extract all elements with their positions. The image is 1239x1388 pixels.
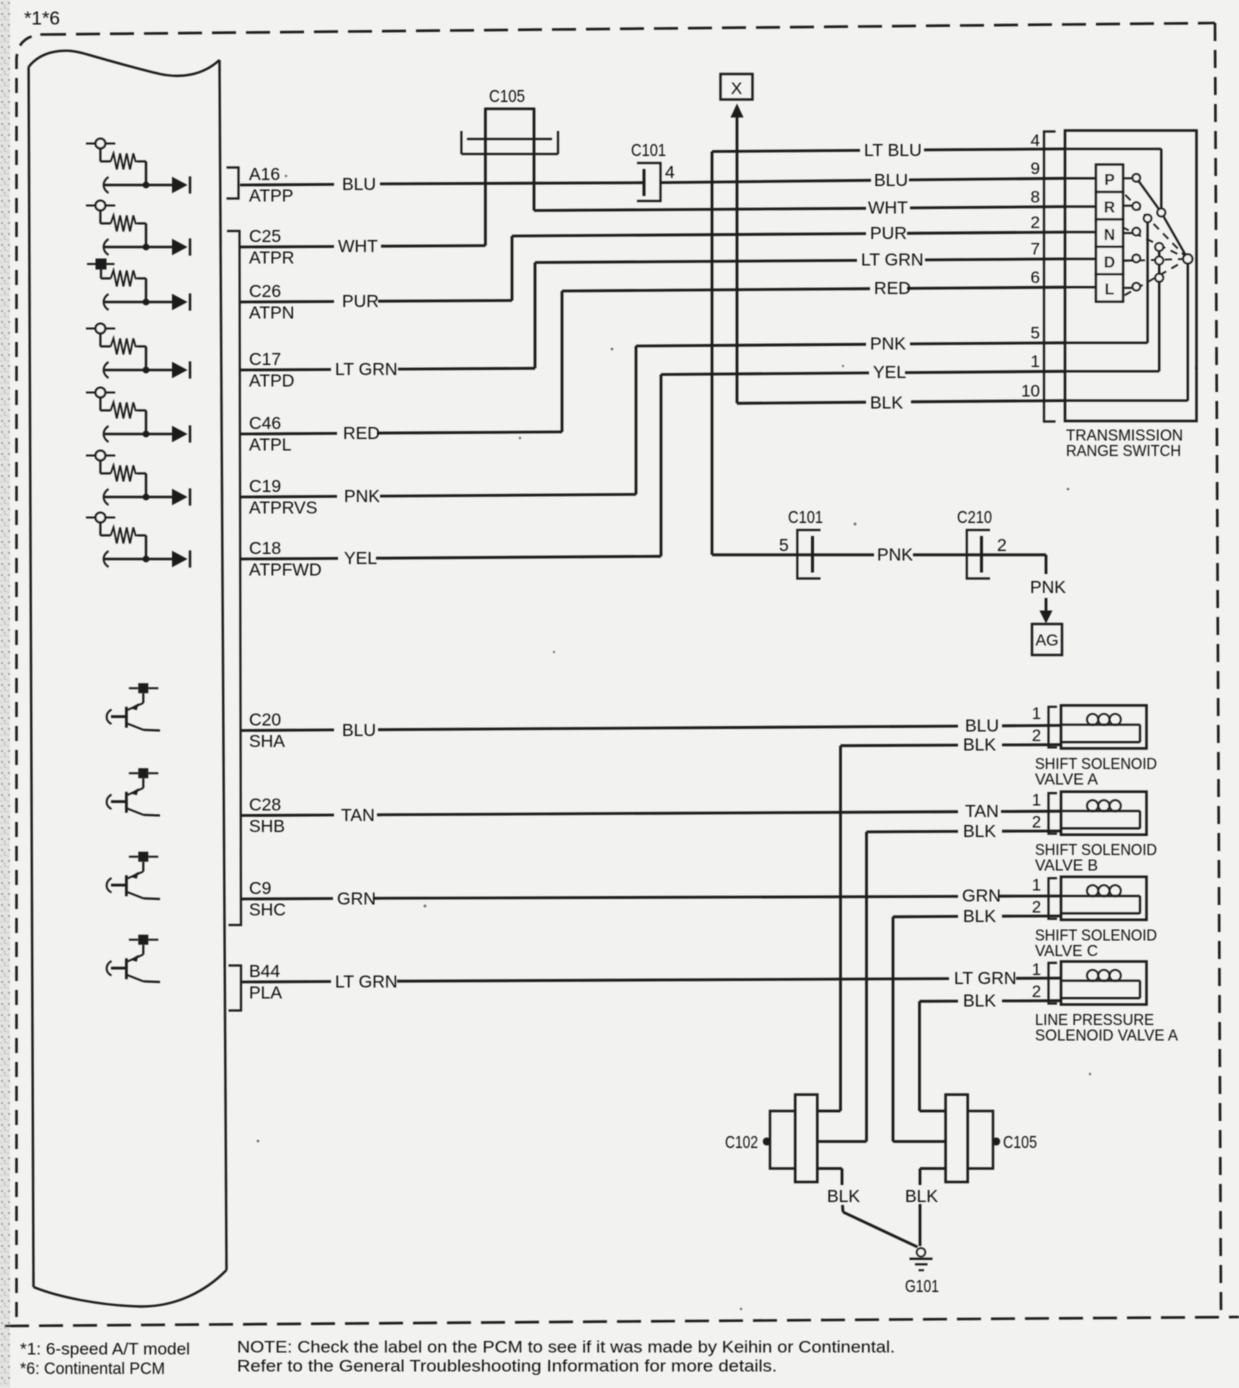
svg-text:WHT: WHT [868,198,908,218]
svg-text:LT GRN: LT GRN [335,972,398,992]
svg-text:BLU: BLU [342,174,376,194]
wire BLK from C102 to G101 [817,1169,917,1248]
connector C101 pin 5 [712,507,823,579]
svg-text:LT GRN: LT GRN [954,968,1017,988]
label BLK (valve A) [963,735,996,755]
connector C105 (top) [461,86,558,154]
svg-text:VALVE B: VALVE B [1035,858,1098,875]
wire PNK from C19 to range switch pin 5 [240,343,1065,497]
svg-text:A16: A16 [249,164,280,184]
svg-text:TRANSMISSION: TRANSMISSION [1066,428,1183,445]
note marker *1*6 [24,9,60,29]
wire BLK return line pressure valve to C105 [920,1001,1062,1111]
svg-text:PNK: PNK [344,486,380,506]
wire BLU from C101 to range switch pin 9 [661,178,1066,182]
PRNDL position contact boxes [1065,165,1133,302]
svg-text:C25: C25 [249,226,281,246]
wire YEL from C18 to range switch pin 1 [240,371,1065,559]
svg-text:2: 2 [1032,983,1041,1001]
switch-input sensor circuit C19 with pull-up resistor and diode [86,451,190,506]
svg-text:WHT: WHT [338,236,378,256]
svg-text:YEL: YEL [873,362,906,382]
wire TAN from C28/SHB to shift solenoid valve B [240,811,1061,815]
connector C102 [725,1095,817,1182]
wiper arm (Park position) [1136,178,1188,259]
svg-text:PNK: PNK [1030,577,1066,597]
connector bracket pin A16 [227,168,239,199]
labels BLU (SHA wire) [342,716,999,741]
svg-text:C28: C28 [249,795,281,815]
svg-text:X: X [731,79,742,98]
wire LT BLU from range switch pin 4, down to C101 pin 5 [712,149,1065,555]
wire color label YEL (right) [873,362,906,382]
transistor driver C28 (SHB) [107,768,160,815]
wire color label PNK (right) [870,334,906,354]
wire BLU from A16 to C101 pin4 [240,183,644,185]
wire color label LT GRN (left) [335,359,398,379]
wire BLU from C20/SHA to shift solenoid valve A [240,725,1061,730]
wire GRN from C9/SHC to shift solenoid valve C [240,896,1061,899]
label BLK (C102 ground lead) [827,1186,860,1206]
pin label C46/ATPL [249,413,292,455]
off-page connector box X [721,74,753,100]
svg-text:ATPP: ATPP [249,186,293,206]
svg-text:VALVE A: VALVE A [1035,771,1098,788]
svg-text:PLA: PLA [249,983,282,1003]
switch-input sensor circuit A16 with pull-up resistor and diode [86,139,190,194]
svg-text:P: P [1104,172,1114,189]
svg-text:2: 2 [997,535,1007,555]
svg-text:PNK: PNK [877,545,913,565]
arrow down to AG [1040,598,1053,624]
svg-text:ATPRVS: ATPRVS [249,498,317,518]
pin label C25/ATPR [249,226,294,268]
wire color label PNK [877,545,913,565]
wire PNK from C210 down to AG [982,555,1047,574]
arrowhead to X [731,104,744,118]
range switch pin numbers [1021,131,1040,400]
svg-text:BLK: BLK [963,821,996,841]
svg-text:*6: Continental PCM: *6: Continental PCM [20,1360,165,1378]
svg-text:5: 5 [779,535,789,555]
svg-text:8: 8 [1031,187,1040,206]
wire color label BLU (right) [874,170,908,190]
svg-text:VALVE C: VALVE C [1035,943,1098,960]
svg-text:C20: C20 [249,710,281,730]
svg-text:C26: C26 [249,281,281,301]
contact circles P,R,N,D,L [1133,174,1141,291]
svg-text:*1: 6-speed A/T model: *1: 6-speed A/T model [20,1341,190,1359]
transistor driver B44 (PLA) [107,935,160,982]
transmission range switch box [1065,131,1197,422]
svg-text:9: 9 [1031,159,1040,178]
wire BLK return valve C to C105 [893,916,1061,1142]
svg-text:2: 2 [1032,814,1041,832]
pin label C18/ATPFWD [249,538,322,580]
wire BLK return valve B to C102 [817,831,1061,1142]
svg-text:PUR: PUR [870,223,907,243]
caption TRANSMISSION RANGE SWITCH [1066,428,1183,461]
svg-text:GRN: GRN [962,886,1001,906]
pin label C9/SHC [249,878,286,920]
svg-text:C19: C19 [249,476,281,496]
svg-text:RANGE SWITCH: RANGE SWITCH [1066,443,1181,460]
wire color label BLK (pin 10) [870,393,903,413]
svg-text:C105: C105 [1003,1132,1037,1152]
svg-text:7: 7 [1031,240,1040,259]
wire color label WHT (right) [868,198,908,218]
labels LT GRN (PLA wire) [335,968,1017,992]
line pressure solenoid valve A (coil) [1032,961,1178,1044]
connector bracket C-pin group [227,231,241,925]
svg-text:C102: C102 [725,1132,758,1152]
svg-text:SHIFT SOLENOID: SHIFT SOLENOID [1035,842,1157,859]
connector C105 (bottom) [946,1095,1037,1182]
svg-text:SHC: SHC [249,900,286,920]
svg-text:ATPR: ATPR [249,248,294,268]
svg-text:BLK: BLK [905,1186,938,1206]
svg-text:C105: C105 [489,86,525,106]
wire PUR from C26 to range switch pin 2 [240,232,1065,302]
svg-text:BLU: BLU [342,720,376,740]
switch internal wire pin4 to wiper pivot [1065,149,1161,210]
svg-text:SOLENOID VALVE A: SOLENOID VALVE A [1035,1028,1178,1045]
switch internal wire pin10 to common pole [1065,261,1188,401]
svg-text:TAN: TAN [341,805,375,825]
svg-text:BLK: BLK [963,991,996,1011]
pin label B44/PLA [249,961,282,1003]
pin label C17/ATPD [249,349,294,391]
connector C210 pin 2 [957,507,1007,579]
svg-text:ATPN: ATPN [249,303,294,323]
svg-text:BLU: BLU [874,170,908,190]
label BLK (valve C) [963,906,996,926]
NOTE line 1 [237,1339,895,1357]
svg-text:R: R [1104,200,1115,217]
svg-text:TAN: TAN [965,801,999,821]
thermistor-input (square) sensor circuit C26 with pull-up resistor and diode [87,259,190,311]
connector bracket pin B44 [229,966,242,1011]
svg-text:C17: C17 [249,349,281,369]
wire BLK return valve A to C102 [817,745,1061,1111]
pin label C19/ATPRVS [249,476,317,518]
wire color label PNK (left) [344,486,380,506]
switch-input sensor circuit C17 with pull-up resistor and diode [86,324,190,379]
svg-text:ATPL: ATPL [249,435,292,455]
svg-text:SHIFT SOLENOID: SHIFT SOLENOID [1035,927,1157,944]
wire WHT from C25 up into C105 [240,139,485,247]
wire LT GRN from B44/PLA to line pressure solenoid valve A [240,978,1061,982]
svg-text:BLK: BLK [827,1186,860,1206]
svg-text:BLU: BLU [965,716,999,736]
wire color label YEL (left) [344,548,377,568]
wire BLK from C105 to G101 [920,1169,946,1247]
svg-text:ATPFWD: ATPFWD [249,560,322,580]
svg-text:4: 4 [665,162,675,182]
svg-text:SHIFT SOLENOID: SHIFT SOLENOID [1035,756,1157,773]
dashed wiper positions R/N/D/L [1122,195,1185,295]
svg-text:GRN: GRN [337,889,376,909]
svg-text:1: 1 [1032,877,1041,895]
svg-text:C101: C101 [631,140,666,160]
wire WHT from C105 down to range switch pin 8 [534,139,1065,211]
switch internal wire pin1 to contact column [1065,245,1159,371]
transmission range switch connector bracket [1044,132,1056,422]
transistor driver C9 (SHC) [107,852,160,899]
switch-input sensor circuit C46 with pull-up resistor and diode [86,388,190,443]
svg-text:6: 6 [1031,268,1040,287]
svg-text:RED: RED [874,278,911,298]
svg-text:Refer to the General Troublesh: Refer to the General Troubleshooting Inf… [237,1358,777,1376]
svg-text:C210: C210 [957,507,992,527]
footnote *6 [20,1360,165,1378]
shift solenoid valve A (coil) [1032,705,1157,788]
label BLK (C105 ground lead) [905,1186,938,1206]
NOTE line 2 [237,1358,777,1376]
svg-text:NOTE: Check the label on the P: NOTE: Check the label on the PCM to see … [237,1339,895,1357]
svg-text:YEL: YEL [344,548,377,568]
svg-text:ATPD: ATPD [249,371,294,391]
shift solenoid valve B (coil) [1032,792,1157,875]
svg-text:4: 4 [1031,131,1040,150]
intermediate contact circles [1144,209,1166,282]
svg-text:1: 1 [1032,961,1041,979]
svg-text:N: N [1104,227,1115,244]
svg-text:G101: G101 [905,1276,939,1296]
wire color label WHT (left) [338,236,378,256]
svg-text:1: 1 [1032,792,1041,810]
switch-input sensor circuit C18 with pull-up resistor and diode [86,513,190,568]
pin label C28/SHB [249,795,285,837]
svg-text:C101: C101 [788,507,823,527]
svg-text:BLK: BLK [870,393,903,413]
wire color label PUR (right) [870,223,907,243]
labels TAN (SHB wire) [341,801,999,825]
svg-text:B44: B44 [249,961,280,981]
wire color label RED (left) [343,423,380,443]
wire color label RED (right) [874,278,911,298]
svg-text:1: 1 [1031,352,1040,371]
svg-text:1: 1 [1032,705,1041,723]
wire color label PNK (to AG) [1030,577,1066,597]
footnote *1 [20,1341,190,1359]
shift solenoid valve C (coil) [1032,877,1157,960]
svg-text:C46: C46 [249,413,281,433]
svg-text:2: 2 [1031,213,1040,232]
svg-text:*1*6: *1*6 [24,9,60,29]
label BLK (line pressure valve) [963,991,996,1011]
svg-text:AG: AG [1035,633,1058,650]
svg-text:5: 5 [1031,324,1040,343]
connector C101 pin 4 [631,140,675,201]
svg-text:PNK: PNK [870,334,906,354]
svg-text:PUR: PUR [342,291,379,311]
pin label C26/ATPN [249,281,294,323]
svg-text:LT BLU: LT BLU [864,140,922,160]
wire RED from C46 to range switch pin 6 [240,287,1065,434]
wire PNK from C101 to C210 [813,553,982,556]
ground G101 [905,1248,939,1296]
label BLK (valve B) [963,821,996,841]
svg-text:SHA: SHA [249,731,285,751]
svg-text:2: 2 [1032,899,1041,917]
svg-text:D: D [1104,254,1115,271]
common pole circle [1183,254,1192,263]
svg-text:10: 10 [1021,381,1040,400]
transistor driver C20 (SHA) [107,683,160,730]
svg-text:LT GRN: LT GRN [335,359,398,379]
switch-input sensor circuit C25 with pull-up resistor and diode [86,201,190,256]
svg-text:L: L [1105,282,1114,299]
wire color label PUR (left) [342,291,379,311]
svg-text:C9: C9 [249,878,271,898]
svg-text:BLK: BLK [963,735,996,755]
switch internal wire pin5 to contact [1065,221,1148,343]
svg-text:SHB: SHB [249,816,285,836]
svg-text:BLK: BLK [963,906,996,926]
wire color label LT GRN (right) [861,250,924,270]
pin label A16/ATPP [249,164,293,206]
PCM module outline (torn-edge block) [29,51,227,1307]
wire LT GRN from C17 to range switch pin 7 [240,259,1065,370]
wire color label BLU (left) [342,174,376,194]
svg-text:RED: RED [343,423,380,443]
svg-text:2: 2 [1032,727,1041,745]
svg-text:LT GRN: LT GRN [861,250,924,270]
wire BLK from range switch pin 10 to off-page X [737,115,1065,403]
svg-text:C18: C18 [249,538,281,558]
svg-text:LINE PRESSURE: LINE PRESSURE [1035,1012,1154,1029]
ground reference box AG [1032,624,1062,655]
wire color label LT BLU [864,140,922,160]
pin label C20/SHA [249,710,285,752]
labels GRN (SHC wire) [337,886,1001,909]
